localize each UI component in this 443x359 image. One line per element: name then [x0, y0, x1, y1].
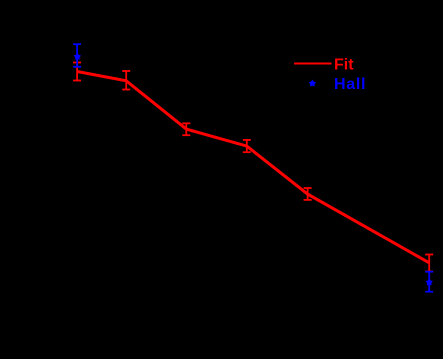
hall error bar point 2 (blue) — [425, 272, 433, 292]
legend fit line sample — [294, 62, 331, 64]
red error bar point 5 — [304, 188, 312, 200]
fit line (red data curve) — [77, 72, 429, 263]
red error bar point 1 — [73, 63, 81, 81]
red error bar point 6 — [425, 255, 433, 272]
hall star marker point 1 — [74, 53, 80, 59]
svg-text:Hall: Hall — [334, 76, 366, 93]
red error bar point 4 — [243, 140, 251, 152]
hall error bar point 1 (blue) — [73, 44, 81, 67]
red error bar point 3 — [182, 123, 190, 135]
red error bar point 2 — [122, 71, 130, 90]
svg-text:Fit: Fit — [334, 57, 354, 74]
hall star marker point 2 — [426, 279, 432, 285]
legend hall star sample — [309, 80, 315, 86]
